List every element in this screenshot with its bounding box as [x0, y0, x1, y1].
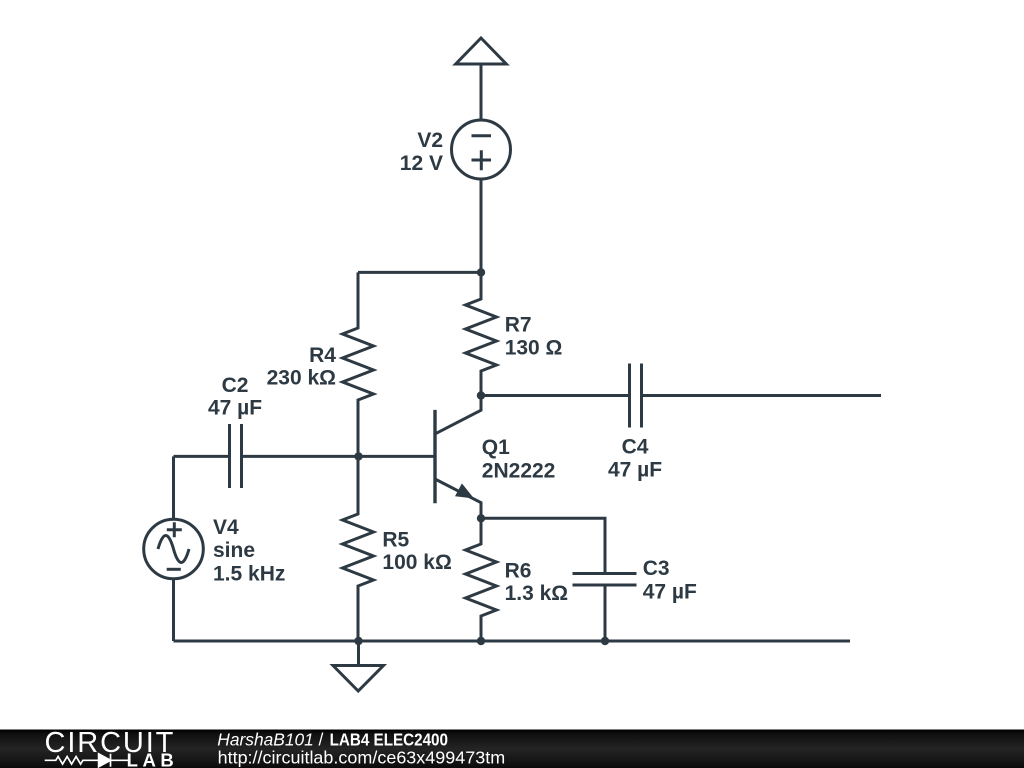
- voltage source V4: [144, 519, 204, 579]
- wire emitter to C3: [481, 518, 605, 573]
- resistor R6: [466, 518, 497, 641]
- wire base node to Q1: [359, 455, 436, 458]
- svg-text:C3: C3: [643, 557, 670, 580]
- wire top rail: [358, 271, 481, 274]
- svg-text:1.5 kHz: 1.5 kHz: [213, 562, 285, 585]
- svg-text:LAB4 ELEC2400: LAB4 ELEC2400: [330, 730, 449, 750]
- svg-text:R5: R5: [382, 528, 409, 551]
- node emitter junction: [477, 514, 485, 522]
- resistor R5: [343, 456, 374, 641]
- resistor R4: [343, 272, 374, 456]
- svg-text:sine: sine: [213, 539, 255, 562]
- svg-text:100 kΩ: 100 kΩ: [382, 551, 451, 574]
- svg-text:12 V: 12 V: [400, 152, 443, 175]
- resistor R7: [466, 272, 497, 395]
- svg-text:230 kΩ: 230 kΩ: [267, 367, 336, 390]
- wire C2 to base node: [242, 455, 359, 458]
- svg-text:/: /: [319, 730, 324, 750]
- wire collector to C4: [481, 394, 630, 397]
- wire bottom rail: [174, 640, 851, 643]
- svg-text:LAB: LAB: [127, 750, 174, 768]
- wire C4 output: [642, 394, 882, 397]
- capacitor C3: [573, 574, 637, 586]
- capacitor C2: [230, 424, 242, 488]
- svg-text:R7: R7: [505, 313, 532, 336]
- logo resistor-diode glyph: [45, 754, 130, 767]
- wire input left: [174, 455, 230, 458]
- svg-text:R4: R4: [309, 344, 336, 367]
- wire V4 bottom: [172, 579, 175, 641]
- svg-text:130 Ω: 130 Ω: [505, 336, 563, 359]
- svg-text:http://circuitlab.com/ce63x499: http://circuitlab.com/ce63x499473tm: [218, 748, 506, 768]
- node ground junction R6: [477, 637, 485, 645]
- svg-text:V2: V2: [417, 129, 443, 152]
- voltage source V2: [452, 120, 511, 179]
- footer bar: [0, 730, 1024, 768]
- transistor Q1: [435, 396, 481, 519]
- svg-text:R6: R6: [505, 560, 532, 583]
- wire C3 bottom: [604, 585, 607, 641]
- node ground junction R5: [354, 637, 362, 645]
- svg-text:47 µF: 47 µF: [643, 581, 697, 604]
- svg-text:V4: V4: [213, 516, 239, 539]
- node collector junction: [477, 391, 485, 399]
- node top rail junction: [477, 268, 485, 276]
- svg-text:47 µF: 47 µF: [608, 459, 662, 482]
- svg-text:47 µF: 47 µF: [208, 397, 262, 420]
- ground: [333, 641, 384, 691]
- svg-text:HarshaB101: HarshaB101: [217, 730, 313, 750]
- node ground junction C3: [601, 637, 609, 645]
- svg-text:C4: C4: [622, 436, 649, 459]
- power flag VCC: [456, 38, 507, 120]
- svg-text:2N2222: 2N2222: [482, 459, 556, 482]
- svg-text:Q1: Q1: [482, 436, 510, 459]
- wire V2 to top rail: [480, 179, 483, 272]
- node base junction: [354, 452, 362, 460]
- capacitor C4: [630, 364, 642, 428]
- svg-text:1.3 kΩ: 1.3 kΩ: [505, 582, 569, 605]
- svg-text:C2: C2: [222, 374, 249, 397]
- wire V4 top: [172, 456, 175, 519]
